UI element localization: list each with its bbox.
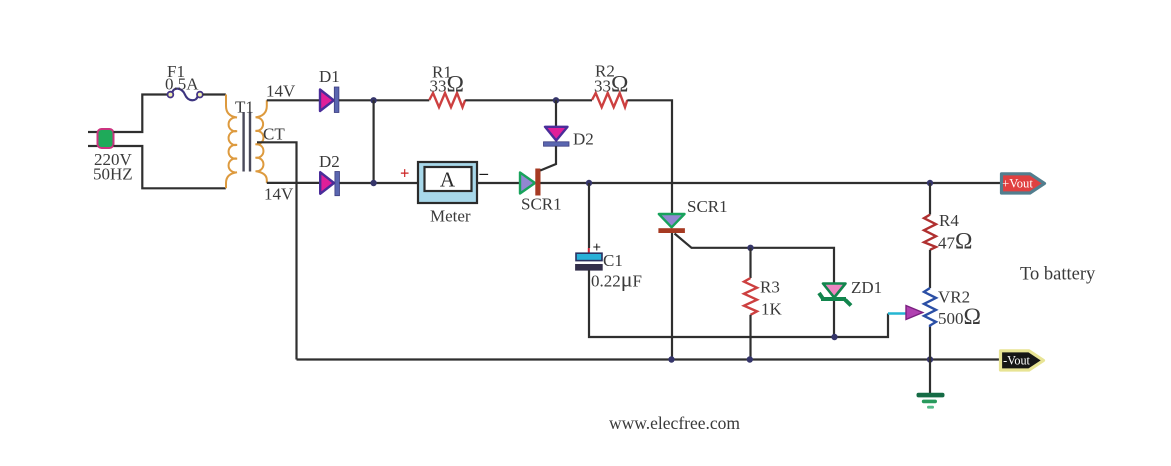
fuse F1 element — [168, 89, 203, 101]
transformer T1 secondary winding — [256, 100, 267, 183]
diode D2 (vertical, gate) — [544, 127, 570, 146]
wire C1 bottom to wiper riser — [589, 270, 888, 337]
node junction R3 top — [747, 245, 753, 251]
svg-text:ZD1: ZD1 — [851, 278, 882, 297]
svg-text:www.elecfree.com: www.elecfree.com — [609, 413, 740, 433]
thyristor SCR1 (horizontal) — [520, 169, 541, 196]
resistor R2 — [592, 93, 627, 107]
diode D1 — [320, 87, 339, 113]
wire wiper cyan — [888, 312, 906, 314]
wire D2v anode lead — [555, 100, 557, 126]
wire C1 top lead — [588, 183, 590, 248]
svg-text:R3: R3 — [760, 278, 780, 297]
plug 220V connector — [98, 129, 114, 148]
wire ground lead — [929, 360, 931, 394]
wire meter to SCR1 — [477, 182, 520, 184]
wire fuse to transformer — [203, 93, 226, 95]
svg-text:+Vout: +Vout — [1002, 177, 1033, 191]
node junction D2v anode — [553, 97, 559, 103]
svg-text:To battery: To battery — [1020, 265, 1096, 285]
node junction D2 out — [370, 180, 376, 186]
svg-text:+: + — [593, 240, 602, 256]
svg-text:1K: 1K — [761, 300, 783, 319]
svg-text:D2: D2 — [573, 130, 594, 149]
wire bottom rail — [297, 358, 1002, 360]
wire D2 to meter — [340, 182, 419, 184]
svg-text:14V: 14V — [266, 82, 296, 101]
wire plug bottom stub — [88, 145, 98, 147]
svg-text:0.5A: 0.5A — [165, 75, 199, 94]
svg-text:D1: D1 — [319, 67, 340, 86]
ground symbol — [917, 393, 945, 409]
svg-text:Meter: Meter — [430, 207, 471, 226]
wire plug to primary bottom (bottom-left loop) — [114, 146, 226, 188]
wire R3 bottom lead — [749, 315, 751, 360]
svg-text:50HZ: 50HZ — [93, 165, 133, 184]
resistor R4 — [924, 215, 936, 250]
ammeter meter box — [418, 162, 477, 203]
svg-text:-Vout: -Vout — [1003, 354, 1030, 368]
wire R4 top lead — [929, 183, 931, 215]
capacitor C1 — [576, 253, 603, 270]
svg-text:14V: 14V — [264, 185, 294, 204]
wire ZD1 cathode lead — [833, 301, 835, 337]
svg-text:SCR1: SCR1 — [521, 195, 562, 214]
wire R3 top lead — [749, 248, 751, 278]
wire D2v cathode to SCR1 gate — [540, 146, 556, 170]
transformer T1 core — [244, 112, 250, 172]
wire R1 to R2 — [465, 99, 592, 101]
svg-text:CT: CT — [263, 125, 285, 144]
wire VR2 bottom lead — [929, 327, 931, 360]
wire SCR2 gate run to ZD1 — [675, 234, 835, 284]
node junction output negative — [927, 356, 933, 362]
svg-text:–: – — [479, 164, 489, 183]
wire R4 to VR2 — [929, 250, 931, 288]
terminal -Vout — [1001, 351, 1044, 370]
svg-text:D2: D2 — [319, 152, 340, 171]
transformer T1 primary winding — [226, 95, 237, 189]
wire C1 red polarity lead — [588, 248, 590, 253]
node junction C1 top — [586, 180, 592, 186]
terminal +Vout — [1002, 174, 1045, 193]
wire secondary bottom to D2 — [267, 182, 320, 184]
svg-text:A: A — [440, 168, 456, 192]
node junction R4 top — [927, 180, 933, 186]
potentiometer VR2 — [924, 288, 936, 327]
wire plug to fuse (top-left loop) — [114, 95, 168, 133]
thyristor SCR2 (vertical) — [658, 214, 685, 233]
node junction SCR2 cathode on rail — [668, 356, 674, 362]
wire plug top stub — [88, 131, 98, 133]
wire CT tap down to bottom rail — [257, 142, 297, 359]
wire R2 to SCR2 anode — [627, 100, 672, 214]
zener diode ZD1 — [819, 284, 851, 306]
wire SCR2 cathode down to bottom rail — [671, 233, 673, 360]
svg-text:T1: T1 — [235, 98, 254, 117]
resistor R1 — [429, 93, 465, 107]
wire D1 to R1 — [339, 99, 429, 101]
node junction ZD1 bottom — [831, 334, 837, 340]
wire secondary top to D1 — [267, 99, 320, 101]
resistor R3 — [744, 278, 757, 315]
wiper arrow VR2 — [906, 306, 923, 320]
svg-text:+: + — [400, 164, 409, 183]
node junction R3 bottom on rail — [747, 356, 753, 362]
wire SCR1 cathode to +Vout — [541, 182, 1002, 184]
svg-text:SCR1: SCR1 — [687, 197, 728, 216]
node junction D1/D2 top — [370, 97, 376, 103]
diode D2 — [320, 172, 339, 196]
svg-text:R4: R4 — [939, 211, 959, 230]
wire vertical link top-bottom rows — [373, 100, 375, 183]
